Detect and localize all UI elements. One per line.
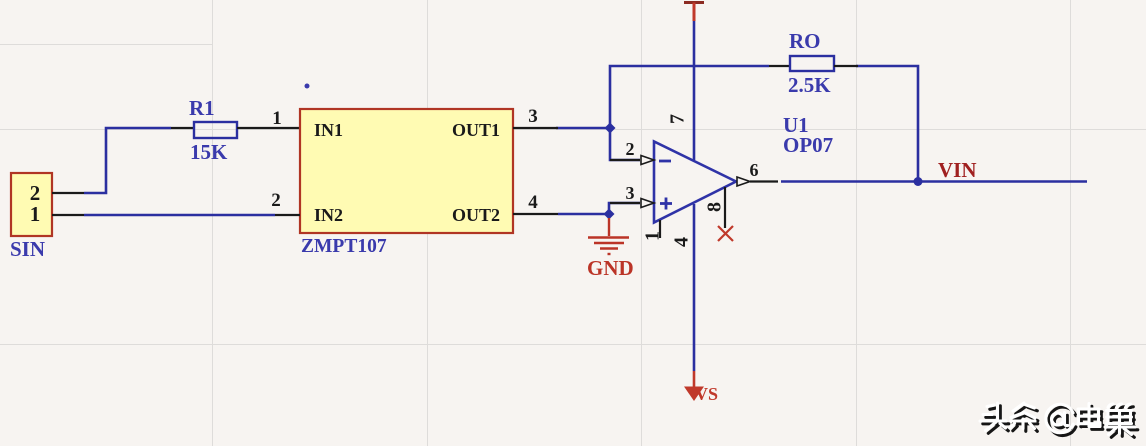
wire node A down to pin2 lead	[610, 128, 640, 160]
pin 3 lead arrow	[610, 199, 654, 208]
pin 8 stub	[724, 187, 726, 228]
svg-text:6: 6	[750, 160, 759, 180]
pin 6 output lead arrow	[737, 177, 778, 186]
resistor R1	[171, 122, 300, 138]
svg-text:R1: R1	[189, 96, 215, 120]
svg-text:8: 8	[704, 202, 726, 212]
svg-text:1: 1	[642, 231, 664, 241]
svg-text:1: 1	[30, 202, 41, 226]
svg-text:2.5K: 2.5K	[788, 73, 831, 97]
resistor RO	[769, 56, 858, 71]
watermark 头条@电巢	[980, 403, 1138, 437]
ground GND	[588, 218, 629, 254]
wire node B up to pin3 lead	[609, 203, 640, 214]
no-connect X on pin 8	[718, 226, 733, 241]
svg-text:ZMPT107: ZMPT107	[301, 236, 387, 257]
svg-text:VS: VS	[695, 384, 718, 404]
wire node A up to feedback	[610, 66, 769, 128]
pin 1 stub	[659, 220, 661, 238]
connector SIN	[11, 173, 84, 236]
stray dot	[305, 84, 310, 89]
wire VCC to pin 7	[693, 20, 696, 160]
svg-text:3: 3	[626, 183, 635, 203]
wire OUT2 to node B	[558, 213, 609, 216]
svg-text:2: 2	[626, 139, 635, 159]
wire SIN pin1 to IN2	[84, 214, 275, 217]
svg-text:RO: RO	[789, 29, 821, 53]
wire OUT1 to node A	[556, 127, 610, 130]
svg-text:4: 4	[671, 237, 693, 247]
power VS	[684, 371, 704, 401]
svg-text:15K: 15K	[190, 140, 228, 164]
wire SIN pin2 to R1	[84, 128, 171, 193]
wire RO to output node	[856, 66, 918, 182]
svg-text:4: 4	[528, 192, 538, 213]
wire output to VIN net	[781, 180, 1087, 183]
svg-text:3: 3	[528, 106, 538, 127]
svg-text:2: 2	[271, 190, 281, 211]
svg-text:7: 7	[667, 114, 689, 124]
svg-text:1: 1	[272, 108, 282, 129]
node VIN junction	[914, 177, 923, 186]
node A junction	[605, 123, 616, 134]
op-amp U1	[654, 142, 736, 223]
node B junction	[604, 209, 615, 220]
svg-text:SIN: SIN	[10, 237, 45, 261]
pin 2 lead arrow	[610, 156, 654, 165]
svg-text:IN1: IN1	[314, 120, 343, 140]
svg-text:OUT2: OUT2	[452, 205, 500, 225]
svg-text:IN2: IN2	[314, 205, 343, 225]
wire pin 4 to VS	[693, 204, 696, 371]
svg-text:VIN: VIN	[938, 158, 977, 182]
svg-text:OUT1: OUT1	[452, 120, 500, 140]
svg-text:OP07: OP07	[783, 133, 833, 157]
power VCC bar	[684, 3, 704, 22]
ic ZMPT107	[275, 109, 558, 233]
svg-text:GND: GND	[587, 256, 634, 280]
